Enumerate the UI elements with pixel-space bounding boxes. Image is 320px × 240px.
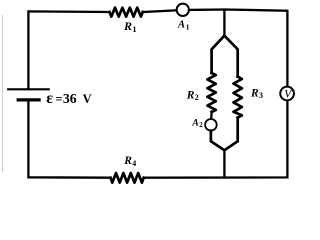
label A1	[177, 20, 190, 32]
label R1	[123, 19, 137, 34]
svg-text:R: R	[123, 19, 132, 33]
wire Y-split to left branch	[212, 36, 225, 73]
wire A2 down to merge point	[211, 131, 225, 151]
svg-text:1: 1	[132, 24, 136, 34]
wire R3 down to merge point	[224, 118, 237, 151]
svg-text:ε: ε	[46, 90, 53, 107]
label R2	[186, 89, 199, 102]
wire R2 to A2	[210, 112, 213, 119]
svg-text:1: 1	[186, 22, 190, 31]
svg-text:R: R	[123, 155, 132, 167]
battery long plate	[8, 88, 49, 90]
wire R1 to A1	[143, 10, 177, 12]
label battery emf	[46, 90, 91, 107]
svg-text:2: 2	[195, 93, 199, 102]
wire A1 to top-right corner and right edge upper	[189, 10, 287, 87]
svg-text:A: A	[191, 118, 199, 129]
svg-text:36: 36	[63, 91, 77, 106]
voltmeter V	[280, 87, 294, 101]
resistor R3	[234, 77, 242, 118]
label R4	[123, 155, 136, 168]
battery short plate	[18, 98, 39, 101]
svg-text:=: =	[55, 92, 62, 106]
wire Y-split to right branch	[224, 36, 237, 77]
wire right edge lower + bottom-right to R4	[144, 100, 288, 177]
wire R4 to bottom-left corner and left edge lower	[28, 101, 110, 178]
ammeter A2	[205, 119, 217, 131]
svg-text:3: 3	[259, 91, 263, 100]
node junction top	[223, 10, 225, 36]
svg-text:R: R	[186, 89, 195, 101]
wire left edge upper + top-left to R1	[28, 11, 109, 89]
resistor R1	[110, 8, 143, 17]
svg-text:4: 4	[132, 159, 136, 168]
wire merge to bottom wire	[223, 150, 225, 177]
resistor R4	[111, 173, 144, 183]
svg-text:V: V	[83, 92, 92, 106]
svg-text:A: A	[177, 20, 185, 31]
resistor R2	[207, 73, 215, 112]
label R3	[250, 87, 263, 100]
svg-text:R: R	[250, 87, 259, 99]
svg-text:2: 2	[199, 121, 203, 129]
ammeter A1	[177, 4, 189, 16]
label A2	[191, 118, 203, 130]
faint scan artifact left edge	[2, 15, 4, 172]
